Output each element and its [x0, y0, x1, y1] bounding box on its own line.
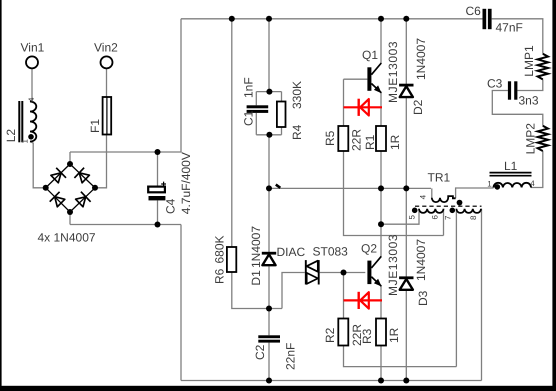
svg-text:C3: C3 — [487, 77, 503, 91]
svg-text:R4: R4 — [290, 124, 304, 140]
junction dot bottom C2 — [266, 378, 272, 384]
svg-text:R3: R3 — [360, 328, 374, 344]
wire D2 bottom lead — [405, 98, 407, 188]
junction dot C4 top — [155, 149, 161, 155]
inductor L1 winding — [494, 183, 532, 188]
diode red DQ2 — [344, 299, 383, 301]
svg-text:22R: 22R — [350, 129, 364, 151]
wire C1R4 riser top — [268, 19, 270, 92]
svg-text:7: 7 — [444, 215, 453, 220]
inductor L1 core — [490, 172, 532, 174]
wire bridge right lead — [95, 135, 107, 188]
wire R4 bottom lead — [281, 127, 283, 135]
wire left riser bottom — [180, 225, 182, 381]
TR1 primary winding — [432, 196, 456, 202]
capacitor C3 — [508, 81, 511, 99]
wire Q2 collector riser — [380, 224, 382, 256]
transistor Q2 base bar — [367, 261, 371, 285]
junction dot mid R1 — [378, 185, 384, 191]
svg-text:4: 4 — [419, 194, 428, 199]
wire R3 bottom lead — [380, 346, 382, 381]
svg-text:Vin1: Vin1 — [21, 41, 45, 55]
wire D1 top lead — [268, 188, 270, 252]
svg-text:6: 6 — [431, 215, 440, 220]
TR1 w78 phase dot — [450, 208, 456, 214]
TR1 core — [415, 205, 482, 207]
wire D3 bottom lead — [405, 290, 407, 381]
svg-text:LMP2: LMP2 — [524, 123, 538, 155]
svg-text:8: 8 — [469, 215, 478, 220]
L2 phase dot — [28, 134, 34, 140]
wire Vin2 lead — [106, 68, 108, 97]
lamp LMP1 — [538, 54, 548, 80]
diode D2 — [399, 84, 413, 87]
svg-text:5: 5 — [408, 215, 417, 220]
wire C4 bottom lead — [157, 200, 159, 224]
wire TR1 pin6 lead — [443, 209, 445, 236]
transistor Q1 collector — [371, 63, 381, 75]
svg-text:1: 1 — [487, 180, 492, 189]
junction dot Q2 base — [341, 270, 347, 276]
junction dot rail D2 — [403, 16, 409, 22]
junction dot rail Q1 — [378, 16, 384, 22]
wire TR1 pin8 riser — [481, 209, 483, 381]
junction dot rail C1R4 — [266, 16, 272, 22]
svg-text:D3: D3 — [416, 290, 430, 306]
svg-text:C4: C4 — [164, 198, 178, 214]
capacitor C4 — [148, 187, 165, 193]
svg-text:R2: R2 — [323, 327, 337, 343]
svg-text:680K: 680K — [213, 235, 227, 263]
svg-text:4x 1N4007: 4x 1N4007 — [38, 231, 96, 245]
bridge diode top-left — [51, 173, 61, 183]
svg-text:R6: R6 — [213, 268, 227, 284]
diode D3 — [399, 276, 413, 279]
capacitor C1 — [247, 105, 269, 108]
border right — [552, 0, 556, 391]
junction dot C1R4 top — [266, 89, 272, 95]
bridge diode top-right — [79, 173, 89, 183]
wire C1R4 top — [256, 91, 281, 93]
resistor R6 — [227, 247, 236, 272]
wire bridge top lead — [69, 152, 71, 164]
TR1 secondary winding 5-6 — [419, 209, 444, 213]
wire bottom rail — [181, 380, 482, 382]
lamp LMP2 — [538, 126, 548, 151]
transistor Q2 emitter — [371, 277, 381, 286]
svg-text:LMP1: LMP1 — [522, 45, 536, 77]
junction dot D1 bottom — [266, 306, 272, 312]
svg-text:D1: D1 — [249, 270, 263, 286]
wire R4 top lead — [281, 92, 283, 102]
diac symbol — [305, 260, 307, 284]
wire C6 right to LMP1 — [492, 19, 543, 54]
border bottom — [0, 386, 556, 391]
wire C1R4 riser bottom — [268, 135, 270, 189]
svg-text:C6: C6 — [466, 4, 482, 18]
transistor Q2 emitter arrow — [374, 279, 382, 287]
wire R6 top lead — [231, 19, 233, 247]
svg-text:D2: D2 — [411, 99, 425, 115]
junction dot C1R4 bottom — [266, 132, 272, 138]
wire D1 bottom lead — [268, 266, 270, 335]
svg-text:MJE13003: MJE13003 — [386, 41, 400, 103]
wire D2 top lead — [405, 19, 407, 85]
wire D3 top lead — [405, 188, 407, 277]
artifact tick — [276, 185, 281, 188]
resistor R4 — [277, 102, 286, 128]
TR1 primary phase dot — [457, 200, 463, 206]
wire TR1 primary right lead — [456, 188, 494, 198]
junction dot bottom D3 — [403, 378, 409, 384]
svg-text:F1: F1 — [88, 119, 102, 133]
svg-text:4: 4 — [27, 97, 36, 102]
junction dot C4 bottom — [155, 222, 161, 228]
svg-text:22nF: 22nF — [284, 343, 298, 370]
wire Q1 emitter to R1 — [380, 93, 382, 127]
junction dot midpoint drop — [378, 221, 384, 227]
svg-text:TR1: TR1 — [428, 171, 451, 185]
wire R1 bottom lead — [380, 151, 382, 188]
inductor L2 core — [18, 101, 20, 142]
transistor Q1 base bar — [367, 67, 371, 91]
terminal Vin2 — [101, 56, 113, 68]
wire Vin1 lead — [30, 68, 32, 101]
transistor Q1 emitter arrow — [374, 85, 382, 93]
wire LMP1 to C3 — [517, 79, 542, 90]
wire midpoint drop — [380, 188, 382, 224]
transistor Q2 collector — [371, 256, 381, 268]
svg-text:ST083: ST083 — [313, 245, 349, 259]
diode D1 — [262, 252, 276, 255]
svg-text:R1: R1 — [363, 134, 377, 150]
svg-text:1nF: 1nF — [242, 77, 256, 98]
bridge rectifier frame — [46, 164, 95, 212]
svg-text:Vin2: Vin2 — [94, 41, 118, 55]
bridge node bottom — [67, 209, 73, 215]
svg-text:3n3: 3n3 — [519, 94, 539, 108]
wire C4 top lead — [157, 152, 159, 187]
svg-text:1R: 1R — [388, 134, 402, 150]
diode red DQ1 — [344, 106, 383, 108]
wire mid rail — [269, 187, 431, 189]
svg-text:Q2: Q2 — [361, 242, 377, 256]
bridge diode bottom-left — [55, 197, 65, 207]
resistor R5 — [338, 126, 348, 151]
wire bridge bottom lead — [69, 212, 71, 225]
svg-text:DIAC: DIAC — [277, 245, 306, 259]
TR1 w56 phase dot — [412, 208, 418, 214]
wire C1R4 bottom — [256, 134, 281, 136]
svg-text:47nF: 47nF — [496, 21, 523, 35]
svg-text:330K: 330K — [290, 81, 304, 109]
wire C3 left lead — [492, 91, 543, 126]
wire C1 bottom lead — [255, 113, 257, 135]
capacitor C6 — [483, 9, 487, 29]
bridge node right — [92, 185, 98, 191]
svg-text:1R: 1R — [387, 327, 401, 343]
wire bridge+ to riser — [70, 151, 182, 153]
wire C2 bottom lead — [268, 343, 270, 381]
wire R5 bottom lead — [344, 151, 444, 236]
L1 phase dot — [495, 184, 501, 190]
svg-text:1N4007: 1N4007 — [414, 38, 428, 80]
wire TR1 pin4 lead — [431, 188, 433, 198]
svg-text:R5: R5 — [323, 130, 337, 146]
inductor L2 winding — [30, 102, 36, 142]
svg-text:L1: L1 — [504, 159, 518, 173]
wire L1 right lead — [531, 151, 543, 188]
fuse F1 — [103, 97, 112, 135]
svg-text:4: 4 — [530, 179, 535, 188]
wire TR1 pin7 lead — [455, 209, 457, 367]
wire bridge- rail — [70, 224, 181, 226]
capacitor C2 — [258, 335, 280, 338]
junction dot bottom R3 — [378, 378, 384, 384]
wire R2 top lead — [343, 273, 345, 319]
wire top rail — [181, 18, 483, 20]
svg-text:1: 1 — [21, 139, 30, 144]
wire DIAC to Q2 base — [320, 272, 366, 274]
resistor R2 — [338, 319, 348, 346]
wire DIAC left lead — [282, 273, 305, 309]
border left — [0, 0, 2, 391]
bridge node left — [43, 185, 49, 191]
wire Q2 emitter to R3 — [380, 286, 382, 319]
terminal Vin1 — [26, 56, 38, 68]
resistor R1 — [376, 126, 386, 151]
wire Q1 collector riser — [380, 19, 382, 63]
svg-text:C2: C2 — [253, 344, 267, 360]
wire left riser top — [180, 19, 182, 152]
wire Q1 base — [344, 78, 368, 80]
junction dot rail R6 — [229, 16, 235, 22]
wire bridge left lead — [30, 142, 46, 188]
wire C1 top lead — [255, 92, 257, 106]
wire R2 bottom lead — [344, 346, 457, 367]
transistor Q1 emitter — [371, 84, 381, 93]
bridge node top — [67, 161, 73, 167]
TR1 secondary winding 7-8 — [456, 209, 481, 213]
wire Q1 base drop to R5 — [343, 79, 345, 126]
svg-text:L2: L2 — [4, 129, 18, 143]
junction dot mid C1R4 — [266, 185, 272, 191]
resistor R3 — [376, 319, 386, 346]
bridge diode bottom-right — [76, 197, 86, 207]
wire R6 bottom lead — [232, 272, 282, 309]
svg-text:1N4007: 1N4007 — [249, 226, 263, 268]
svg-text:4.7uF/400V: 4.7uF/400V — [179, 152, 193, 214]
svg-text:MJE13003: MJE13003 — [386, 234, 400, 296]
svg-text:Q1: Q1 — [362, 48, 378, 62]
junction dot mid D2 — [403, 185, 409, 191]
wire TR1 pin5 lead — [381, 209, 419, 224]
svg-text:1N4007: 1N4007 — [414, 239, 428, 281]
svg-text:C1: C1 — [242, 110, 256, 126]
